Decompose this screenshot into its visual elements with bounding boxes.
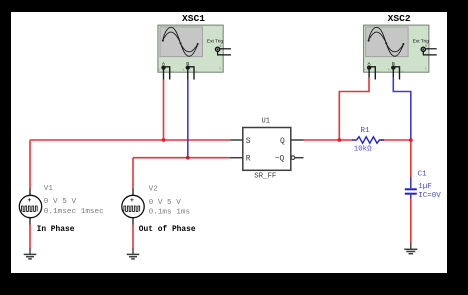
wire: Q output to R1 left <box>304 139 353 141</box>
svg-text:C1: C1 <box>418 171 428 179</box>
XSC1 body <box>158 25 223 72</box>
V2 clock waveform glyph <box>124 206 140 211</box>
resistor R1 <box>352 137 384 143</box>
svg-text:_: _ <box>195 68 198 72</box>
svg-text:T: T <box>219 67 221 71</box>
wire: XSC1 B probe (blue) down to net R <box>187 80 189 158</box>
wire: V2 bottom to ground <box>132 225 134 250</box>
flip-flop U1 body <box>243 128 291 171</box>
svg-text:_: _ <box>376 68 379 72</box>
V2 pin stubs <box>132 189 134 225</box>
wire: XSC2 B probe (blue) to node C <box>393 78 411 141</box>
junction node C at R1 right <box>409 138 413 142</box>
svg-text:Q: Q <box>280 137 285 146</box>
ground for C1 <box>404 243 417 254</box>
svg-text:XSC2: XSC2 <box>388 13 411 24</box>
svg-text:R1: R1 <box>361 127 371 135</box>
XSC2 screen <box>366 27 408 57</box>
op: U1 pin stub ~Q with bubble <box>291 156 295 160</box>
XSC1 pin A+ stub <box>163 70 165 80</box>
svg-text:V2: V2 <box>149 186 159 194</box>
op: U1 pin stub S <box>230 139 243 141</box>
svg-text:_: _ <box>170 68 173 72</box>
XSC2 pin B- stub <box>394 67 399 80</box>
wire: V2 vertical to net R <box>132 158 134 189</box>
wire: XSC2 A probe (red) to Q net <box>339 78 369 141</box>
wire: V1 vertical to net S <box>29 140 31 189</box>
XSC2 Ext Trig terminal <box>421 47 425 51</box>
svg-text:+: + <box>158 68 160 72</box>
wire: V1 bottom to ground <box>29 225 31 250</box>
svg-text:U1: U1 <box>262 118 270 126</box>
wire: net R (V2 to R input, horizontal) <box>133 157 230 159</box>
svg-text:B: B <box>392 61 395 66</box>
wire: node C down to C1 top <box>410 140 412 178</box>
ground for V1 <box>24 249 37 259</box>
svg-text:0.1msec 1msec: 0.1msec 1msec <box>44 208 104 216</box>
svg-text:T: T <box>425 67 427 71</box>
svg-text:+: + <box>363 68 365 72</box>
svg-text:IC=0V: IC=0V <box>418 192 441 200</box>
svg-text:6: 6 <box>220 44 222 48</box>
svg-text:10kΩ: 10kΩ <box>354 145 372 153</box>
V2 circle body <box>122 195 144 217</box>
svg-text:V1: V1 <box>44 185 54 193</box>
XSC2 pin A+ stub <box>368 70 370 78</box>
svg-text:1µF: 1µF <box>418 183 432 191</box>
svg-text:+: + <box>130 197 134 204</box>
oscilloscope XSC1 <box>158 25 231 79</box>
svg-text:6: 6 <box>425 44 427 48</box>
XSC1 terminal A <box>161 65 165 69</box>
clock source V2 <box>122 189 144 225</box>
XSC2 screen sine waves <box>368 27 403 56</box>
svg-text:In Phase: In Phase <box>37 225 75 234</box>
svg-text:+: + <box>28 197 32 204</box>
svg-text:SR_FF: SR_FF <box>254 172 276 180</box>
V1 circle body <box>19 195 41 217</box>
wire: R1 right to node C <box>381 139 411 141</box>
svg-text:R: R <box>246 155 251 164</box>
XSC1 Ext Trig terminal <box>215 47 219 51</box>
svg-text:B: B <box>186 61 189 66</box>
V1 pin stubs <box>29 189 31 225</box>
svg-text:+: + <box>182 68 184 72</box>
XSC2 body <box>364 25 429 72</box>
clock source V1 <box>19 189 41 225</box>
XSC1 terminal B <box>186 65 190 69</box>
XSC1 screen <box>160 27 202 57</box>
XSC1 pin B+ stub <box>187 70 189 80</box>
op: U1 pin stub Q <box>291 139 304 141</box>
junction node at XSC1 B / net R <box>186 156 190 160</box>
svg-text:S: S <box>246 137 251 146</box>
junction node at XSC1 A / net S <box>162 138 166 142</box>
svg-text:XSC1: XSC1 <box>182 13 205 24</box>
wire: XSC1 A probe (red) down to net S <box>163 80 165 141</box>
ground for V2 <box>127 249 140 259</box>
wire: net S (V1 to S input, horizontal) <box>30 139 230 141</box>
svg-text:0 V 5 V: 0 V 5 V <box>149 199 182 207</box>
XSC1 screen sine waves <box>163 27 198 56</box>
svg-text:_: _ <box>400 68 403 72</box>
XSC2 pin A- stub <box>370 67 375 80</box>
op: U1 pin stub R <box>230 157 243 159</box>
XSC2 terminal B <box>391 65 395 69</box>
V1 clock waveform glyph <box>21 206 37 211</box>
junction node at XSC2 A / Q net <box>337 138 341 142</box>
svg-text:+: + <box>388 68 390 72</box>
XSC2 pin B+ stub <box>392 70 394 78</box>
svg-text:0.1ms 1ms: 0.1ms 1ms <box>149 208 191 216</box>
XSC1 pin A- stub <box>165 67 170 80</box>
svg-text:~Q: ~Q <box>275 155 285 164</box>
XSC2 terminal A <box>367 65 371 69</box>
wire: C1 bottom to ground <box>410 199 412 243</box>
XSC1 pin B- stub <box>189 67 194 80</box>
capacitor C1 <box>410 178 412 199</box>
svg-text:0 V 5 V: 0 V 5 V <box>44 198 77 206</box>
svg-text:Out of Phase: Out of Phase <box>139 225 196 234</box>
oscilloscope XSC2 <box>363 25 436 79</box>
